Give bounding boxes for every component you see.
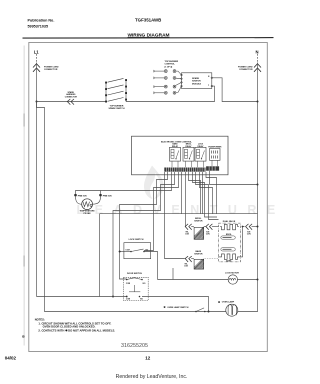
- svg-text:✱: ✱: [218, 300, 221, 304]
- wire f6 broil ignitor feed: [185, 172, 187, 227]
- svg-text:DOOR SWITCH: DOOR SWITCH: [127, 273, 143, 275]
- wire L1 feed to spark switches: [37, 101, 107, 103]
- svg-text:CONNECTOR: CONNECTOR: [44, 69, 58, 71]
- junction on lamp line: [208, 311, 210, 313]
- svg-text:NO: NO: [143, 283, 146, 285]
- wire door NO to lamp line: [142, 297, 209, 312]
- wire f14: [202, 172, 204, 214]
- wire f1 bake ignitor feed: [165, 172, 185, 259]
- svg-text:04/02: 04/02: [5, 356, 17, 361]
- power cord connector L1: [33, 64, 40, 72]
- svg-text:CON: CON: [184, 266, 189, 268]
- svg-text:316255205: 316255205: [121, 343, 148, 349]
- svg-text:TGF351AWB: TGF351AWB: [135, 17, 161, 22]
- svg-text:LOCK MOTOR: LOCK MOTOR: [225, 273, 239, 275]
- svg-text:SPARK: SPARK: [192, 77, 200, 80]
- svg-text:(1 OF 4): (1 OF 4): [165, 65, 173, 68]
- top burner control: [154, 61, 182, 94]
- bake valve coil: [220, 254, 239, 259]
- svg-text:MODULE: MODULE: [192, 83, 202, 85]
- svg-text:TOP BURNER: TOP BURNER: [110, 105, 124, 107]
- wire f12: [206, 172, 217, 214]
- junction on N at EOC neutral: [257, 184, 259, 186]
- power cord connector N: [254, 64, 261, 72]
- svg-text:PRB IGN: PRB IGN: [78, 195, 87, 197]
- svg-text:TOP BURNER: TOP BURNER: [165, 61, 179, 63]
- svg-text:COM: COM: [126, 283, 131, 285]
- lock switch: [119, 239, 158, 279]
- svg-text:COM: COM: [126, 298, 131, 300]
- svg-text:CON: CON: [185, 233, 190, 235]
- svg-text:PROBE: PROBE: [83, 213, 91, 215]
- relay K3 lock: [195, 144, 206, 168]
- wire N vertical: [257, 54, 259, 63]
- spark switch bank: [105, 78, 214, 110]
- svg-text:OVEN DOOR CLOSED AND UNLOCKED.: OVEN DOOR CLOSED AND UNLOCKED.: [43, 325, 96, 329]
- spark ignitor module: [181, 73, 259, 103]
- wire lock NO to motor line: [144, 252, 158, 280]
- svg-text:LEADVENTURE: LEADVENTURE: [77, 203, 286, 217]
- svg-text:NO: NO: [140, 298, 143, 300]
- svg-text:IGNITOR: IGNITOR: [194, 220, 203, 222]
- svg-text:CON: CON: [247, 233, 252, 235]
- svg-text:OVEN LAMP: OVEN LAMP: [222, 301, 235, 304]
- junction bottom line / f4: [112, 296, 114, 298]
- door switch: [123, 273, 148, 300]
- temperature probe jack: [74, 191, 112, 216]
- connector P2 strip: [206, 166, 219, 170]
- svg-text:NOTES:: NOTES:: [35, 317, 45, 321]
- oven lamp switch: [164, 305, 206, 312]
- connector P1 strip: [164, 166, 219, 171]
- wire L1 vertical: [36, 54, 38, 63]
- temperature probe: [82, 199, 93, 210]
- junction lock COM tap: [119, 251, 121, 253]
- page scan edge artifact: [23, 46, 25, 346]
- wire L1 branch down to lamp line: [37, 102, 258, 312]
- svg-text:LOCK SWITCH: LOCK SWITCH: [129, 239, 144, 241]
- relay K2 broil: [183, 144, 194, 168]
- broil ignitor row: [185, 218, 218, 240]
- notes: [35, 317, 116, 332]
- svg-text:IGNITOR: IGNITOR: [194, 254, 203, 256]
- wire f8: [193, 172, 218, 217]
- svg-text:IGNITOR: IGNITOR: [192, 81, 201, 83]
- svg-text:SPARK SWITCH: SPARK SWITCH: [109, 107, 125, 110]
- wire f7: [189, 172, 201, 214]
- bake ignitor row: [184, 250, 220, 269]
- wire f10: [200, 172, 213, 214]
- lock motor: [158, 268, 259, 284]
- spark switch terminals: [105, 79, 127, 102]
- svg-text:L: L: [208, 84, 210, 86]
- valve right bus to N: [239, 227, 245, 257]
- svg-text:DUAL VALVE: DUAL VALVE: [223, 220, 236, 223]
- svg-text:POWER CORD: POWER CORD: [44, 66, 59, 68]
- svg-text:N: N: [208, 76, 210, 78]
- junction L1 top: [36, 101, 38, 103]
- svg-text:L1: L1: [34, 50, 40, 55]
- svg-text:5995371035: 5995371035: [28, 25, 49, 29]
- wire f9: [196, 172, 219, 220]
- junction bottom line / door switch NC: [126, 296, 128, 298]
- svg-text:Publication No.: Publication No.: [28, 18, 55, 22]
- svg-text:POWER CORD: POWER CORD: [238, 66, 253, 68]
- relay K1 bake: [170, 143, 181, 168]
- wire f5 lock NO feed: [144, 172, 179, 251]
- wire f2 lock COM feed: [120, 172, 168, 279]
- svg-text:2. CONTACTS WITH ✱ DO NOT A: 2. CONTACTS WITH ✱ DO NOT APPEAR ON ALL …: [38, 328, 115, 332]
- transformer T1: [208, 146, 222, 167]
- wire f3 probe feed: [76, 172, 172, 194]
- svg-text:CONNECTOR: CONNECTOR: [65, 97, 78, 99]
- wire f4 door COM feed: [113, 172, 175, 297]
- oven section box left / wire to bottom line: [99, 214, 101, 297]
- broil valve coil: [220, 224, 239, 229]
- oven section box top: [100, 213, 258, 215]
- svg-text:Rendered by LeadVenture, Inc.: Rendered by LeadVenture, Inc.: [116, 374, 188, 380]
- svg-text:PRB IGN: PRB IGN: [103, 195, 112, 197]
- svg-text:N: N: [256, 50, 259, 55]
- header rule: [23, 37, 274, 40]
- svg-text:BAKE: BAKE: [226, 260, 232, 263]
- svg-text:CONTROL: CONTROL: [165, 64, 176, 66]
- wire f11 EOC neutral to N: [210, 171, 258, 185]
- spark switch blades: [108, 78, 124, 101]
- junction on N at spark module line: [257, 101, 259, 103]
- dual valve: [219, 220, 259, 262]
- svg-text:COM: COM: [125, 250, 130, 252]
- electronic oven control box: [132, 136, 229, 175]
- spark switch left bus: [105, 83, 107, 102]
- svg-text:CON: CON: [206, 233, 211, 235]
- wire L1 bottom line to door switch: [37, 296, 127, 298]
- svg-text:✱: ✱: [164, 305, 167, 309]
- spark switch right bus: [125, 80, 127, 102]
- wire f13: [181, 172, 183, 214]
- wire stub to lock COM: [120, 251, 132, 253]
- svg-text:CONNECTOR: CONNECTOR: [239, 69, 253, 71]
- wire from spark switch bank to module: [126, 86, 215, 101]
- svg-text:OVEN LAMP SWITCH: OVEN LAMP SWITCH: [167, 306, 189, 309]
- oven lamp: [218, 300, 238, 316]
- MAIN DIAGRAM GROUP: [33, 50, 261, 312]
- quick connector on L1 feed: [67, 99, 74, 105]
- watermark flame: [144, 166, 164, 200]
- svg-text:12: 12: [145, 356, 151, 361]
- wire module to N: [212, 78, 258, 102]
- page border: [29, 43, 267, 352]
